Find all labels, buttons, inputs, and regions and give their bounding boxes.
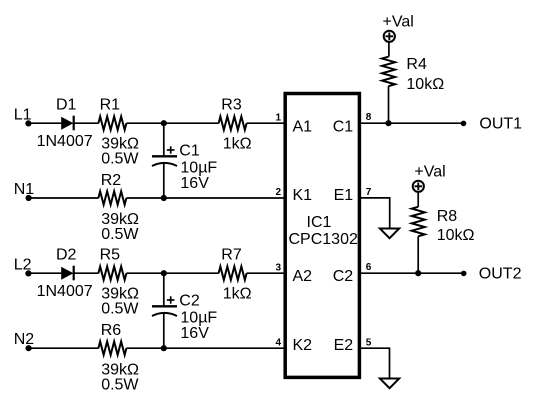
svg-text:N1: N1: [14, 181, 35, 198]
wire R2 to pin2: [126, 197, 283, 199]
wire pin7 to ground: [361, 198, 390, 229]
wire +Val to R4: [388, 42, 390, 57]
svg-text:2: 2: [275, 187, 281, 198]
junction node row2/C1: [161, 195, 167, 201]
diode D1: [61, 116, 73, 131]
svg-text:0.5W: 0.5W: [101, 151, 139, 168]
resistor R4: [382, 57, 395, 86]
svg-text:C2: C2: [179, 293, 200, 310]
svg-text:E2: E2: [334, 337, 354, 354]
svg-text:8: 8: [366, 112, 372, 123]
svg-text:1N4007: 1N4007: [37, 133, 93, 150]
svg-text:16V: 16V: [180, 175, 209, 192]
svg-text:R7: R7: [221, 247, 242, 264]
svg-text:R1: R1: [100, 97, 121, 114]
svg-text:N2: N2: [14, 331, 35, 348]
wire N1 to R2: [29, 197, 99, 199]
svg-text:0.5W: 0.5W: [101, 226, 139, 243]
node L2: [14, 257, 32, 277]
wire +Val to R8: [417, 192, 419, 207]
diode D2: [61, 266, 73, 281]
resistor R5: [98, 267, 126, 280]
svg-text:C1: C1: [179, 143, 200, 160]
node OUT1: [461, 116, 522, 133]
svg-text:R4: R4: [406, 56, 427, 73]
wire pin5 to ground: [361, 348, 390, 378]
svg-text:D2: D2: [56, 247, 77, 264]
wire R4 to row1: [388, 86, 390, 123]
svg-text:10µF: 10µF: [180, 159, 217, 176]
svg-text:+Val: +Val: [383, 14, 414, 31]
svg-text:CPC1302: CPC1302: [289, 231, 358, 248]
wire pin8 to OUT1: [361, 122, 464, 124]
svg-text:10µF: 10µF: [180, 309, 217, 326]
junction node row4/C2: [161, 345, 167, 351]
capacitor C2: [152, 273, 177, 348]
svg-text:3: 3: [275, 262, 281, 273]
resistor R3: [219, 116, 247, 129]
resistor R6: [98, 342, 126, 355]
junction node row3/C2: [161, 270, 167, 276]
svg-text:R6: R6: [101, 322, 122, 339]
svg-text:0.5W: 0.5W: [101, 301, 139, 318]
ground (E2): [380, 379, 399, 389]
svg-text:IC1: IC1: [307, 214, 332, 231]
svg-text:R2: R2: [101, 172, 122, 189]
wire R3 to pin1: [247, 122, 284, 124]
svg-text:K1: K1: [293, 187, 313, 204]
svg-text:R8: R8: [437, 208, 458, 225]
svg-text:+Val: +Val: [414, 164, 445, 181]
wire R5 to R7: [126, 272, 218, 274]
node OUT2: [461, 266, 522, 283]
wire D1 to R1: [74, 122, 99, 124]
power +Val (R8): [413, 164, 446, 192]
svg-text:4: 4: [275, 337, 281, 348]
svg-text:OUT1: OUT1: [479, 116, 522, 133]
svg-text:10kΩ: 10kΩ: [437, 227, 475, 244]
svg-text:0.5W: 0.5W: [101, 376, 139, 393]
capacitor C1: [152, 123, 177, 198]
power +Val (R4): [383, 14, 414, 42]
resistor R7: [219, 267, 247, 280]
resistor R8: [412, 207, 425, 236]
op-amp U1 body: IC1 CPC1302 box: [285, 94, 359, 378]
junction node row1/R4: [385, 120, 391, 126]
svg-text:C2: C2: [333, 268, 354, 285]
svg-text:OUT2: OUT2: [479, 266, 522, 283]
svg-text:1kΩ: 1kΩ: [223, 286, 252, 303]
wire L1 to D1: [28, 122, 61, 124]
svg-text:A2: A2: [293, 268, 313, 285]
svg-text:6: 6: [366, 262, 372, 273]
svg-text:L1: L1: [14, 107, 32, 124]
svg-text:16V: 16V: [180, 325, 209, 342]
svg-text:5: 5: [366, 337, 372, 348]
svg-text:A1: A1: [293, 118, 313, 135]
junction node row1/C1: [161, 120, 167, 126]
wire R7 to pin3: [247, 272, 284, 274]
wire L2 to D2: [28, 272, 61, 274]
svg-text:1kΩ: 1kΩ: [223, 136, 252, 153]
svg-text:E1: E1: [334, 187, 354, 204]
svg-text:R3: R3: [221, 97, 242, 114]
wire R6 to pin4: [126, 347, 283, 349]
svg-text:K2: K2: [293, 337, 313, 354]
node N1: [14, 181, 35, 201]
svg-text:1: 1: [275, 112, 281, 123]
wire pin6 to OUT2: [361, 272, 464, 274]
junction node row3/R8: [415, 270, 421, 276]
resistor R2: [98, 191, 126, 204]
wire R1 to R3: [126, 122, 218, 124]
svg-text:10kΩ: 10kΩ: [406, 76, 444, 93]
svg-text:C1: C1: [333, 118, 354, 135]
wire D2 to R5: [74, 272, 99, 274]
svg-text:R5: R5: [100, 247, 121, 264]
svg-text:7: 7: [366, 187, 372, 198]
svg-text:1N4007: 1N4007: [37, 283, 93, 300]
node N2: [14, 331, 35, 351]
ground (E1): [380, 229, 399, 239]
svg-text:L2: L2: [14, 257, 32, 274]
svg-text:D1: D1: [56, 97, 77, 114]
node L1: [14, 107, 32, 127]
wire N2 to R6: [29, 347, 99, 349]
resistor R1: [98, 116, 126, 129]
wire R8 to row3: [417, 236, 419, 273]
